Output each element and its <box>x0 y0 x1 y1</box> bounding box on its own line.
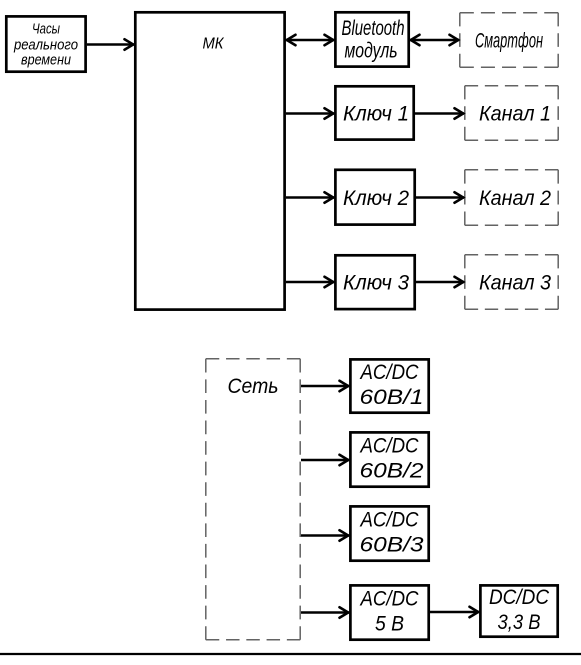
block: Канал 3 (dashed) <box>465 255 558 309</box>
svg-text:модуль: модуль <box>345 40 398 63</box>
svg-text:Ключ 2: Ключ 2 <box>343 187 409 210</box>
label: AC/DC 60В/3 <box>359 509 424 557</box>
label: Смартфон <box>475 30 543 53</box>
svg-text:Канал 1: Канал 1 <box>479 103 551 126</box>
label: AC/DC 60В/1 <box>359 361 424 409</box>
wire: Bluetooth модуль ↔ Смартфон (bidirectional) <box>410 35 459 45</box>
block: МК (microcontroller) <box>135 12 284 309</box>
wire: МК → Ключ 3 <box>286 277 334 287</box>
label: Bluetooth модуль <box>342 17 405 63</box>
label: Канал 1 <box>479 103 551 126</box>
label: AC/DC 60В/2 <box>359 435 424 483</box>
label: Канал 2 <box>479 187 551 210</box>
block: AC/DC 5 В <box>350 585 428 639</box>
svg-text:5 В: 5 В <box>375 613 404 636</box>
wire: Ключ 1 → Канал 1 <box>415 108 464 118</box>
block: Bluetooth модуль <box>335 12 408 66</box>
block: Ключ 3 <box>335 255 414 309</box>
label: Ключ 1 <box>343 103 409 126</box>
block: Канал 2 (dashed) <box>465 170 558 225</box>
wire: МК ↔ Bluetooth модуль (bidirectional) <box>286 35 334 45</box>
svg-text:AC/DC: AC/DC <box>359 588 420 611</box>
label: МК <box>203 36 225 53</box>
wire: Часы реального времени → МК <box>87 39 134 49</box>
wire: Сеть → AC/DC 5 В <box>301 607 349 617</box>
svg-text:DC/DC: DC/DC <box>489 586 550 609</box>
wire: AC/DC 5 В → DC/DC 3,3 В <box>430 607 479 617</box>
svg-text:60В/3: 60В/3 <box>360 534 424 557</box>
wire: Сеть → AC/DC 60В/2 <box>301 455 349 465</box>
svg-text:Ключ 3: Ключ 3 <box>343 272 409 295</box>
label: DC/DC 3,3 В <box>489 586 550 634</box>
svg-text:Канал 2: Канал 2 <box>479 187 551 210</box>
svg-text:AC/DC: AC/DC <box>359 435 420 458</box>
page bottom rule line <box>0 653 581 655</box>
svg-text:Канал 3: Канал 3 <box>479 272 551 295</box>
svg-text:60В/2: 60В/2 <box>360 460 424 483</box>
block: Смартфон (dashed) <box>460 13 558 67</box>
block: Канал 1 (dashed) <box>465 86 558 140</box>
wire: Ключ 2 → Канал 2 <box>416 192 464 202</box>
svg-text:МК: МК <box>203 36 225 53</box>
block: AC/DC 60В/3 <box>350 506 428 560</box>
label: Часы реального времени <box>13 21 78 69</box>
label: Сеть <box>228 375 279 398</box>
block: Часы реального времени (real-time clock) <box>6 16 85 71</box>
label: Канал 3 <box>479 272 551 295</box>
label: AC/DC 5 В <box>359 588 420 636</box>
svg-text:60В/1: 60В/1 <box>360 386 424 409</box>
svg-text:3,3 В: 3,3 В <box>498 611 541 634</box>
wire: Сеть → AC/DC 60В/1 <box>301 381 349 391</box>
svg-text:Ключ 1: Ключ 1 <box>343 103 409 126</box>
label: Ключ 2 <box>343 187 409 210</box>
svg-text:AC/DC: AC/DC <box>359 509 420 532</box>
svg-text:Часы: Часы <box>32 21 60 38</box>
wire: Сеть → AC/DC 60В/3 <box>301 530 349 540</box>
block: AC/DC 60В/1 <box>350 359 428 412</box>
block: DC/DC 3,3 В <box>480 585 557 636</box>
label: Ключ 3 <box>343 272 409 295</box>
wire: МК → Ключ 2 <box>286 192 334 202</box>
svg-text:Смартфон: Смартфон <box>475 30 543 53</box>
block: Ключ 1 <box>335 86 413 139</box>
block: AC/DC 60В/2 <box>350 432 428 486</box>
svg-text:Bluetooth: Bluetooth <box>342 17 405 40</box>
wire: МК → Ключ 1 <box>286 108 334 118</box>
block: Сеть (mains, dashed) <box>206 359 300 640</box>
svg-text:времени: времени <box>21 52 72 69</box>
wire: Ключ 3 → Канал 3 <box>416 277 464 287</box>
block: Ключ 2 <box>335 170 414 225</box>
svg-text:Сеть: Сеть <box>228 375 279 398</box>
svg-text:AC/DC: AC/DC <box>359 361 420 384</box>
